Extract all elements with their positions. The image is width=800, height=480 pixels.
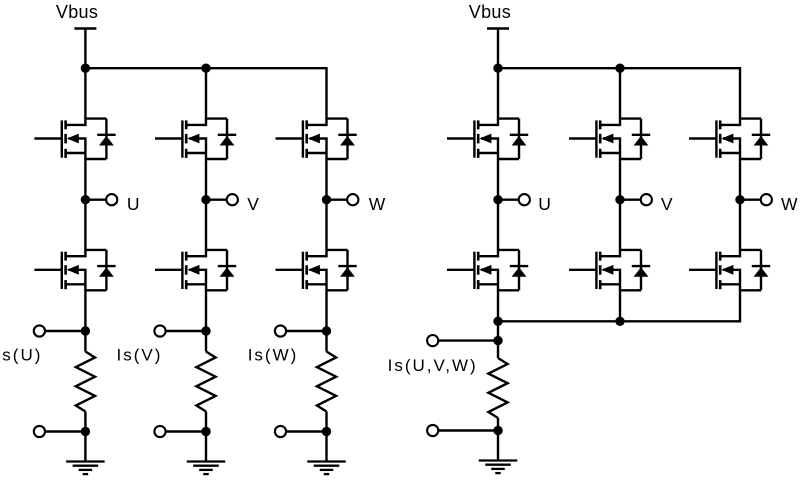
wire sense tap [165, 330, 206, 332]
wire sense tap [44, 330, 85, 332]
node rail junction V [615, 317, 624, 326]
power terminal Vbus right (Vbus bar) [487, 27, 509, 29]
wire phase column [325, 159, 327, 250]
wire source stub to shunt [205, 290, 207, 331]
node output W left [322, 195, 331, 204]
wire ground tap right [433, 429, 498, 431]
wire output stub [85, 198, 106, 200]
wire source stub U right [497, 290, 499, 340]
wire phase column right [739, 159, 741, 250]
wire to ground [84, 432, 86, 462]
ground left U [66, 462, 105, 475]
node shunt bottom V [201, 427, 210, 436]
wire Vbus stub (left) [84, 29, 86, 69]
wire to ground [325, 432, 327, 462]
wire shunt bottom [205, 412, 207, 432]
node sense W [322, 326, 331, 335]
svg-text:Is(W): Is(W) [248, 345, 299, 364]
svg-text:W: W [781, 194, 798, 214]
wire phase column right [619, 159, 621, 250]
wire phase column [205, 159, 207, 250]
terminal phase output U right [519, 194, 530, 205]
transistor Q1 U-phase high-side [34, 118, 115, 160]
wire to ground right [497, 431, 499, 461]
ground left V [187, 462, 226, 475]
svg-text:V: V [661, 194, 673, 214]
svg-text:U: U [127, 194, 140, 214]
terminal ground tap U [34, 426, 45, 437]
wire output stub right [498, 198, 519, 200]
transistor Q5 W-phase high-side [276, 118, 357, 160]
node output V left [201, 195, 210, 204]
terminal phase output U left [106, 194, 117, 205]
transistor Q8 U-phase low-side [447, 249, 528, 291]
terminal ground tap W [275, 426, 286, 437]
resistor R3 (shunt) [317, 352, 336, 412]
wire output stub right [740, 198, 761, 200]
wire Vbus rail (left) with corner down to W high-side drain [85, 68, 326, 118]
power terminal Vbus left (Vbus bar) [74, 27, 96, 29]
terminal phase output W left [347, 194, 358, 205]
ground left W [307, 462, 346, 475]
node sense node common [493, 336, 502, 345]
svg-text:Vbus: Vbus [469, 2, 511, 22]
wire source stub to shunt [325, 290, 327, 331]
node output U right [493, 195, 502, 204]
wire drain stub [205, 68, 207, 118]
transistor Q7 U-phase high-side [447, 118, 528, 160]
terminal sense tap Is(V) [154, 325, 165, 336]
terminal sense tap Is(W) [275, 325, 286, 336]
svg-text:s(U): s(U) [2, 345, 42, 364]
wire to ground [205, 432, 207, 462]
resistor R2 (shunt) [196, 352, 215, 412]
transistor Q9 V-phase high-side [569, 118, 650, 160]
wire output stub [327, 198, 348, 200]
wire ground tap [44, 430, 85, 432]
transistor Q3 V-phase high-side [155, 118, 236, 160]
wire sense tap right [433, 339, 498, 341]
transistor Q4 V-phase low-side [155, 249, 236, 291]
wire ground tap [165, 430, 206, 432]
svg-text:Is(U,V,W): Is(U,V,W) [388, 356, 478, 375]
node shunt bottom U [81, 427, 90, 436]
wire shunt bottom [84, 412, 86, 432]
svg-text:Is(V): Is(V) [117, 345, 163, 364]
node shunt bottom common [493, 426, 502, 435]
wire drain stub U right [497, 68, 499, 118]
wire sense tap [286, 330, 327, 332]
wire drain stub [84, 68, 86, 118]
wire shunt bottom right [497, 418, 499, 431]
wire shunt bottom [325, 412, 327, 432]
terminal ground tap V [154, 426, 165, 437]
wire output stub right [620, 198, 641, 200]
wire Vbus rail (right) with corner down to W high-side drain [498, 68, 740, 118]
node output W right [735, 195, 744, 204]
wire phase column right [497, 159, 499, 250]
transistor Q11 W-phase high-side [689, 118, 770, 160]
terminal ground tap common [427, 425, 438, 436]
node output U left [81, 195, 90, 204]
svg-text:U: U [538, 194, 551, 214]
node Vbus junction left-U [81, 63, 90, 72]
node shunt bottom W [322, 427, 331, 436]
node rail junction U [493, 317, 502, 326]
terminal phase output W right [761, 194, 772, 205]
wire source stub V right [619, 290, 621, 321]
terminal phase output V right [641, 194, 652, 205]
node Vbus junction right-V [615, 63, 624, 72]
wire ground tap [286, 430, 327, 432]
wire source stub to shunt [84, 290, 86, 331]
wire shunt top [84, 331, 86, 352]
ground right [479, 461, 518, 474]
wire drain stub V right [619, 68, 621, 118]
wire phase column [84, 159, 86, 250]
wire output stub [206, 198, 227, 200]
transistor Q12 W-phase low-side [689, 249, 770, 291]
terminal phase output V left [227, 194, 238, 205]
wire shunt top right [497, 341, 499, 358]
svg-text:V: V [247, 194, 259, 214]
resistor R4 (shunt) [488, 358, 507, 418]
svg-text:Vbus: Vbus [56, 2, 98, 22]
node Vbus junction left-V [201, 63, 210, 72]
terminal sense tap Is(U,V,W) [427, 335, 438, 346]
svg-text:W: W [369, 194, 386, 214]
wire shunt top [205, 331, 207, 352]
node sense V [201, 326, 210, 335]
terminal sense tap Is(U) [34, 325, 45, 336]
transistor Q2 U-phase low-side [34, 249, 115, 291]
resistor R1 (shunt) [76, 352, 95, 412]
node Vbus junction right-U [493, 63, 502, 72]
node sense U [81, 326, 90, 335]
wire shunt top [325, 331, 327, 352]
node output V right [615, 195, 624, 204]
wire common source rail [498, 290, 740, 321]
wire Vbus stub (right) [497, 29, 499, 69]
transistor Q10 V-phase low-side [569, 249, 650, 291]
transistor Q6 W-phase low-side [276, 249, 357, 291]
